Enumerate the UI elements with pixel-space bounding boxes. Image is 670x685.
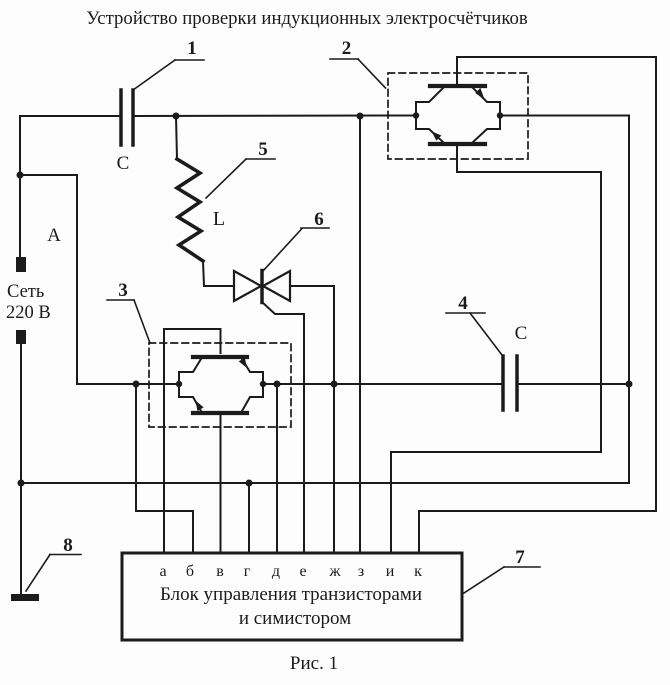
label 4 — [446, 293, 502, 355]
svg-text:Устройство проверки индукционн: Устройство проверки индукционных электро… — [86, 8, 528, 29]
svg-text:Сеть: Сеть — [7, 282, 44, 302]
junction inductor top — [173, 113, 180, 120]
label 5 — [206, 139, 275, 198]
wire U2 right node down right edge — [628, 116, 630, 484]
junction net ж — [331, 381, 338, 388]
svg-text:б: б — [186, 563, 194, 580]
wire net г — [248, 483, 250, 553]
wire U2 bottom collector to net и — [391, 146, 601, 553]
svg-text:е: е — [299, 563, 306, 580]
svg-text:7: 7 — [515, 547, 525, 568]
svg-text:220 В: 220 В — [6, 303, 51, 323]
svg-text:L: L — [213, 208, 225, 230]
wire mid rail middle segment — [263, 383, 501, 385]
label 6 — [263, 209, 329, 271]
svg-text:Блок управления транзисторами: Блок управления транзисторами — [160, 584, 422, 605]
svg-text:д: д — [272, 563, 280, 580]
wire from lower terminal down — [20, 344, 22, 593]
junction C4 right — [626, 381, 633, 388]
svg-text:С: С — [117, 153, 130, 174]
wire mid rail left segment — [77, 383, 179, 385]
wire left rail — [19, 116, 21, 257]
label 3 — [107, 280, 150, 343]
wire net д — [276, 384, 278, 553]
svg-text:А: А — [47, 225, 61, 246]
label Сеть 220 В — [6, 282, 51, 323]
svg-text:и: и — [386, 563, 395, 580]
terminal 8 bar — [11, 594, 39, 601]
node U2 left — [413, 112, 419, 118]
wire triac right to net ж — [290, 286, 334, 553]
transistor pair U3 — [179, 357, 263, 413]
svg-text:и симистором: и симистором — [239, 608, 351, 629]
capacitor C4 — [503, 323, 527, 410]
svg-text:3: 3 — [118, 280, 128, 301]
svg-text:2: 2 — [342, 38, 352, 59]
node U3 left — [176, 381, 182, 387]
supply terminal upper — [16, 257, 26, 272]
svg-text:5: 5 — [258, 139, 268, 160]
svg-text:6: 6 — [314, 209, 324, 230]
svg-text:4: 4 — [458, 293, 468, 314]
wire net б — [136, 384, 193, 553]
label 8 — [26, 535, 81, 591]
control block 7 — [122, 553, 462, 640]
capacitor C1 — [117, 90, 133, 174]
svg-text:ж: ж — [328, 563, 341, 580]
wire triac gate to net е — [262, 302, 304, 553]
wire U3 top collector loop to net а — [164, 329, 221, 553]
transistor module 2 dashed box — [388, 73, 528, 159]
label 7 — [464, 547, 540, 593]
svg-text:в: в — [216, 563, 224, 580]
wire U2 top collector to net к — [419, 57, 656, 553]
junction branch A — [17, 172, 24, 179]
svg-text:а: а — [159, 563, 166, 580]
triac VS 6 — [204, 271, 290, 303]
junction net г — [246, 480, 253, 487]
svg-text:к: к — [414, 563, 422, 580]
junction net з top — [357, 113, 364, 120]
wire branch A vertical — [76, 175, 78, 384]
transistor module 3 dashed box — [149, 343, 291, 427]
wire long lower horizontal to terminal-8 net — [21, 482, 629, 484]
wire branch A horizontal — [20, 174, 77, 176]
junction net д — [274, 381, 281, 388]
wire top rail right — [500, 115, 629, 117]
svg-text:Рис. 1: Рис. 1 — [290, 653, 338, 674]
junction net б — [133, 381, 140, 388]
svg-text:г: г — [244, 563, 251, 580]
supply terminal lower — [16, 330, 26, 344]
node U2 right — [497, 112, 503, 118]
wire U3 bottom collector to net в — [220, 415, 222, 553]
transistor pair U2 — [416, 86, 500, 144]
node U3 right — [260, 381, 266, 387]
pin labels а-к and block text — [159, 563, 422, 629]
wire top rail left — [20, 115, 119, 117]
svg-text:8: 8 — [63, 535, 73, 556]
inductor L5 — [176, 116, 225, 286]
label 2 — [330, 38, 386, 88]
wire net з — [359, 116, 361, 553]
svg-text:С: С — [515, 323, 528, 344]
wire mid rail right segment — [519, 383, 629, 385]
wire top rail mid — [135, 115, 416, 118]
label 1 — [133, 38, 204, 90]
svg-text:з: з — [358, 563, 364, 580]
svg-text:1: 1 — [187, 38, 197, 59]
junction terminal-8 net — [18, 480, 25, 487]
